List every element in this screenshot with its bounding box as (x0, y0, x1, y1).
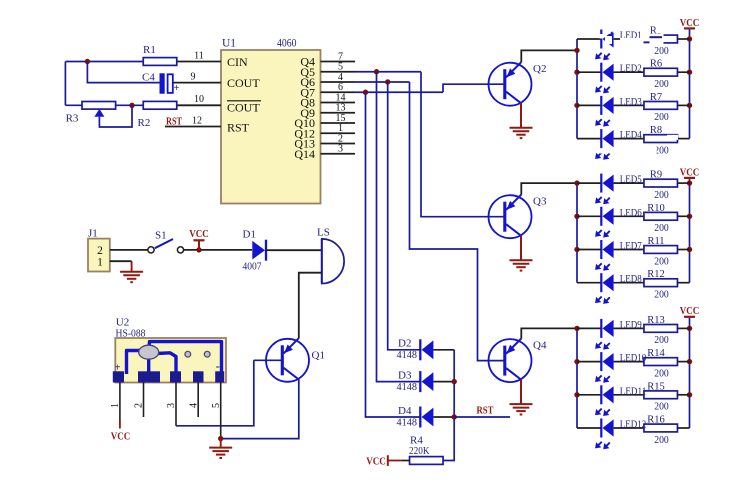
svg-text:VCC: VCC (366, 456, 386, 467)
svg-text:R3: R3 (66, 113, 79, 125)
svg-text:5: 5 (211, 403, 222, 408)
svg-text:200: 200 (654, 190, 669, 201)
svg-text:4060: 4060 (277, 38, 297, 50)
svg-text:3: 3 (166, 403, 177, 408)
svg-text:LED10: LED10 (620, 352, 647, 364)
svg-text:VCC: VCC (680, 306, 700, 317)
svg-text:LED12: LED12 (620, 419, 647, 431)
svg-text:LED5: LED5 (620, 174, 642, 186)
svg-text:1: 1 (97, 257, 103, 269)
svg-text:200: 200 (654, 402, 669, 413)
svg-text:1: 1 (110, 403, 121, 408)
svg-text:200: 200 (654, 256, 669, 267)
svg-text:4148: 4148 (397, 381, 418, 393)
svg-text:200: 200 (654, 290, 669, 301)
svg-text:VCC: VCC (680, 18, 700, 29)
svg-text:12: 12 (192, 115, 202, 126)
svg-text:220K: 220K (409, 445, 430, 457)
svg-text:D3: D3 (398, 369, 412, 381)
svg-text:R6: R6 (650, 59, 662, 70)
svg-text:LED11: LED11 (620, 385, 647, 397)
svg-text:LED3: LED3 (620, 96, 642, 108)
svg-text:R9: R9 (650, 170, 662, 181)
svg-text:4: 4 (188, 403, 199, 408)
svg-text:LED7: LED7 (620, 240, 642, 252)
svg-text:R12: R12 (647, 269, 665, 280)
svg-text:3: 3 (338, 144, 343, 155)
svg-text:R11: R11 (647, 236, 664, 247)
svg-text:R10: R10 (647, 203, 665, 214)
svg-text:D4: D4 (398, 405, 412, 417)
svg-text:2: 2 (134, 403, 145, 408)
svg-text:U1: U1 (222, 38, 236, 50)
svg-text:VCC: VCC (111, 432, 131, 443)
svg-text:R15: R15 (647, 381, 665, 392)
svg-text:LED9: LED9 (620, 319, 642, 331)
svg-text:Q1: Q1 (312, 350, 325, 362)
svg-text:R16: R16 (647, 415, 665, 426)
svg-text:4007: 4007 (243, 261, 262, 273)
svg-text:200: 200 (654, 335, 669, 346)
svg-text:+: + (174, 83, 180, 94)
svg-text:Q3: Q3 (533, 195, 547, 207)
svg-text:CIN: CIN (227, 55, 248, 69)
svg-text:C4: C4 (142, 72, 155, 84)
svg-text:R2: R2 (138, 117, 151, 129)
svg-text:11: 11 (194, 50, 204, 61)
svg-text:200: 200 (654, 435, 669, 446)
svg-text:RST: RST (166, 116, 182, 127)
svg-text:D1: D1 (243, 229, 256, 241)
svg-text:COUT: COUT (227, 76, 260, 90)
svg-text:200: 200 (654, 79, 669, 90)
svg-text:R8: R8 (650, 125, 662, 136)
svg-text:R13: R13 (647, 315, 665, 326)
svg-text:LED2: LED2 (620, 63, 642, 75)
svg-text:R1: R1 (143, 44, 156, 56)
svg-text:10: 10 (194, 94, 204, 105)
svg-text:Q4: Q4 (533, 339, 547, 351)
svg-text:-: - (216, 359, 220, 373)
svg-text:Q14: Q14 (294, 147, 315, 161)
svg-text:R14: R14 (647, 348, 665, 359)
svg-text:200: 200 (654, 368, 669, 379)
svg-text:VCC: VCC (680, 167, 700, 178)
svg-text:J1: J1 (88, 228, 98, 240)
svg-text:S1: S1 (155, 230, 167, 242)
svg-text:Q2: Q2 (533, 63, 546, 75)
svg-text:4148: 4148 (397, 416, 418, 428)
svg-text:200: 200 (654, 112, 669, 123)
svg-text:2: 2 (97, 245, 103, 257)
svg-text:VCC: VCC (189, 229, 209, 240)
svg-text:RST: RST (227, 121, 250, 135)
svg-text:D2: D2 (398, 338, 411, 350)
svg-text:200: 200 (654, 223, 669, 234)
svg-text:LED8: LED8 (620, 273, 642, 285)
svg-text:LS: LS (317, 227, 330, 239)
svg-text:R7: R7 (650, 92, 662, 103)
svg-text:RST: RST (477, 405, 494, 416)
svg-text:LED6: LED6 (620, 207, 642, 219)
svg-text:LED4: LED4 (620, 129, 642, 141)
svg-text:9: 9 (191, 71, 196, 82)
svg-text:4148: 4148 (397, 349, 418, 361)
svg-text:200: 200 (654, 46, 669, 57)
svg-text:COUT: COUT (227, 101, 260, 115)
